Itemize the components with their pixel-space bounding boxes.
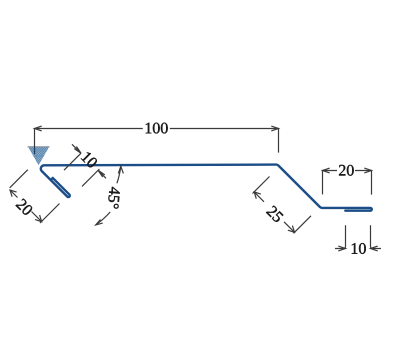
extension line 1 <box>10 170 28 188</box>
dim line upper part <box>254 192 264 202</box>
right arrow <box>271 126 278 131</box>
extension line B <box>82 169 99 186</box>
extension line 1 <box>253 177 270 194</box>
left arrow <box>323 168 330 173</box>
label 10 (left, rotated 45) <box>81 151 99 169</box>
label 20 (left, rotated 45) <box>15 198 33 216</box>
left arrow <box>35 126 42 131</box>
label 100 <box>146 123 168 134</box>
dimension 25 (slope) <box>253 177 312 234</box>
arrow up-left <box>10 190 17 197</box>
arrow pointing down-right at ext A <box>74 147 81 154</box>
arc lower segment <box>96 212 111 225</box>
extension line 2 <box>294 216 312 234</box>
arrow up-left <box>254 192 261 199</box>
arrow pointing left at right ext <box>371 246 378 251</box>
right extension with outside dim segment <box>371 225 382 248</box>
polyline ext-dim-ext <box>323 171 372 195</box>
dim line upper part <box>10 190 18 198</box>
extension line A <box>64 153 81 170</box>
angle 45deg annotation <box>96 166 124 225</box>
label 20 (right) <box>339 165 354 176</box>
label 45deg <box>108 187 121 209</box>
navy part of left extension inside hatch <box>34 147 36 154</box>
dim line tail lower <box>98 170 106 178</box>
arc upper segment <box>117 166 121 183</box>
extension+dim polyline <box>35 129 279 153</box>
left extension with outside dim segment <box>335 225 346 248</box>
profile (blue sheet-metal outline) <box>41 165 372 211</box>
dim line lower part <box>32 212 42 222</box>
dimension 20 (left leg) <box>10 170 60 223</box>
support triangle (hatched) <box>28 147 50 166</box>
arrow down-right <box>288 226 295 233</box>
arrow up at line <box>118 166 123 173</box>
arrow pointing right at left ext <box>338 246 345 251</box>
dimension 20 (right bottom flange) <box>323 168 372 195</box>
dimension 10 (left hem) <box>64 144 106 186</box>
dimension 100 (top) <box>35 126 279 154</box>
extension line 2 <box>40 204 60 224</box>
arrow down-right <box>35 215 42 222</box>
dimension 10 (right hem) <box>335 225 381 251</box>
dim line tail upper <box>72 144 81 153</box>
arrow pointing up-left at ext B <box>98 170 105 177</box>
label 25 (rotated 45) <box>266 205 284 223</box>
arrow at leg end <box>96 220 103 225</box>
label 10 (right) <box>352 243 366 254</box>
dim line lower part <box>284 222 295 233</box>
right arrow <box>364 168 371 173</box>
